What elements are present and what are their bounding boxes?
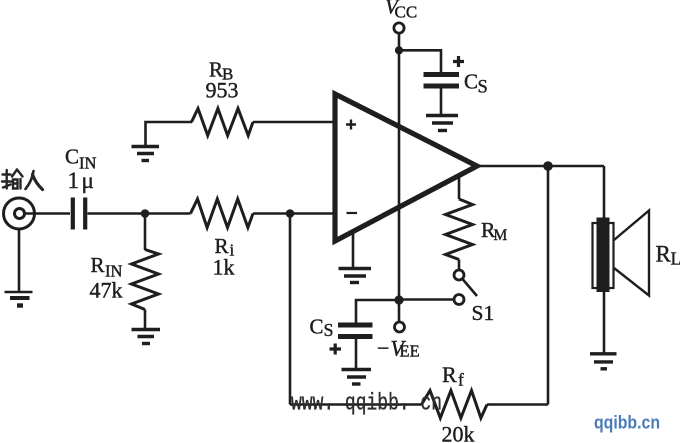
ground (C_S top)	[426, 116, 458, 131]
ground (C_S bottom)	[342, 370, 372, 385]
resistor R_IN	[132, 250, 159, 310]
node A junction dot	[141, 209, 150, 218]
ground (speaker)	[590, 354, 617, 369]
svg-text:1: 1	[68, 168, 80, 193]
wire C_S top to ground	[440, 89, 443, 116]
label R_M	[481, 218, 508, 244]
label V_CC	[385, 0, 417, 22]
svg-text:47k: 47k	[90, 278, 123, 303]
wire feedback down	[547, 166, 550, 405]
svg-text:R: R	[442, 362, 457, 387]
capacitor C_S (bottom)	[338, 325, 373, 337]
wire R_B to op-amp + input	[253, 121, 337, 124]
terminal V_CC	[394, 23, 404, 33]
input connector (输入)	[4, 198, 35, 229]
wire output down to speaker	[603, 166, 606, 218]
capacitor C_IN	[73, 198, 85, 230]
plus sign (C_S top)	[453, 56, 464, 67]
label C_S (bottom)	[310, 315, 334, 341]
label 输入	[2, 170, 43, 190]
plus sign (C_S bottom)	[330, 344, 342, 355]
wire Vcc to C_S top	[399, 50, 441, 72]
resistor R_f	[422, 391, 488, 419]
label R_IN 47k	[90, 253, 123, 303]
wire op-amp edge to R_M	[458, 174, 461, 199]
node V- junction dot	[394, 295, 403, 304]
wire C_S bottom to ground	[355, 339, 358, 370]
ground (R_IN)	[132, 330, 161, 344]
wire speaker to ground	[603, 292, 606, 354]
svg-text:1k: 1k	[213, 255, 235, 280]
label R_B 953	[206, 58, 239, 103]
svg-text:C: C	[65, 145, 79, 169]
wire switch to V- node	[399, 298, 454, 301]
wire op-amp ground pin	[352, 230, 355, 268]
wire R_IN to ground	[144, 310, 147, 330]
wire feedback up to node B	[289, 214, 292, 405]
svg-text:S: S	[478, 78, 488, 98]
wire op-amp output	[477, 165, 604, 168]
wire R_M to switch	[458, 260, 461, 271]
wire R_i to op-amp - input	[253, 212, 337, 215]
wire input down to ground	[18, 230, 21, 293]
terminal -V_EE	[395, 322, 405, 332]
node OUT junction dot	[543, 161, 553, 171]
label R_f 20k	[442, 362, 475, 443]
svg-text:953: 953	[206, 78, 239, 103]
svg-text:f: f	[458, 370, 464, 390]
resistor R_B	[192, 109, 254, 136]
svg-text:L: L	[671, 249, 680, 269]
svg-text:R: R	[656, 242, 672, 267]
svg-text:C: C	[464, 70, 478, 94]
svg-text:CC: CC	[395, 3, 418, 22]
svg-text:R: R	[91, 253, 105, 277]
wire feedback bottom left	[290, 403, 422, 406]
wire C_IN to node A	[88, 212, 191, 215]
svg-text:20k: 20k	[442, 422, 475, 443]
node Vcc junction dot	[395, 46, 403, 54]
speaker R_L	[593, 211, 650, 296]
svg-text:μ: μ	[82, 168, 94, 193]
svg-text:S: S	[324, 320, 334, 340]
capacitor C_S (top)	[424, 75, 460, 87]
label C_S (top)	[464, 70, 488, 98]
label R_i 1k	[213, 234, 235, 280]
ground (input)	[5, 292, 33, 306]
svg-text:EE: EE	[400, 342, 420, 361]
resistor R_i	[191, 199, 254, 228]
label R_L	[656, 242, 680, 269]
label -V_EE	[376, 336, 420, 361]
op-amp U1	[335, 94, 477, 241]
wire feedback bottom right	[487, 403, 548, 406]
svg-text:www. qqibb. cn: www. qqibb. cn	[291, 391, 442, 418]
resistor R_M	[446, 199, 473, 260]
label C_IN 1u	[65, 145, 96, 194]
switch S1	[454, 270, 477, 305]
node B junction dot (feedback tap)	[286, 209, 295, 218]
svg-text:M: M	[494, 227, 508, 244]
wire node A down to R_IN	[144, 214, 147, 251]
wire V+ rail (through op-amp)	[398, 33, 401, 322]
wire ground up to R_B	[146, 122, 193, 147]
svg-text:C: C	[310, 315, 324, 339]
svg-text:S1: S1	[472, 301, 495, 325]
svg-text:qqibb.cn: qqibb.cn	[594, 413, 660, 433]
wire input to C_IN	[25, 212, 70, 215]
ground (op-amp)	[339, 269, 372, 283]
wire V- node left to C_S bottom	[356, 300, 399, 323]
ground (R_B left)	[132, 147, 160, 161]
